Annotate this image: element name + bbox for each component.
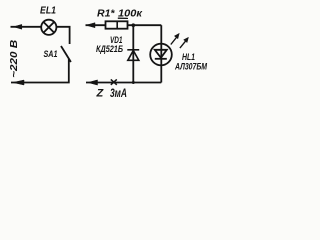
wire: VD1 branch vertical	[132, 25, 134, 82]
LED HL1	[150, 25, 172, 82]
lamp EL1	[41, 20, 56, 35]
diode VD1 (cathode bar and up-pointing triangle)	[127, 50, 139, 61]
wire: switch to bottom-left lead with arrow	[11, 59, 69, 85]
LED light arrows	[171, 33, 189, 48]
resistor R1	[106, 18, 129, 28]
svg-text:100к: 100к	[118, 8, 143, 20]
wire: lamp to switch corner	[56, 27, 69, 44]
wire: left circuit top lead with arrow	[11, 24, 42, 29]
svg-text:КД521Б: КД521Б	[96, 44, 123, 55]
svg-text:R1*: R1*	[97, 8, 115, 20]
svg-text:EL1: EL1	[40, 6, 56, 17]
svg-text:~220 В: ~220 В	[8, 39, 20, 77]
svg-text:АЛ307БМ: АЛ307БМ	[174, 62, 208, 73]
svg-text:Z: Z	[96, 88, 105, 100]
switch SA1 lever	[61, 46, 71, 62]
node: junction of R1 / VD1	[132, 23, 136, 27]
wire: bottom-right lead with arrow	[86, 80, 161, 85]
node: junction of VD1 at bottom wire	[132, 81, 135, 84]
break mark: current measuring point X	[111, 79, 117, 84]
svg-text:HL1: HL1	[182, 52, 195, 62]
svg-text:3мА: 3мА	[110, 86, 127, 100]
wire: resistor to LED corner	[128, 24, 162, 26]
wire: right circuit top lead with arrow	[86, 23, 107, 28]
svg-text:SA1: SA1	[44, 49, 58, 59]
